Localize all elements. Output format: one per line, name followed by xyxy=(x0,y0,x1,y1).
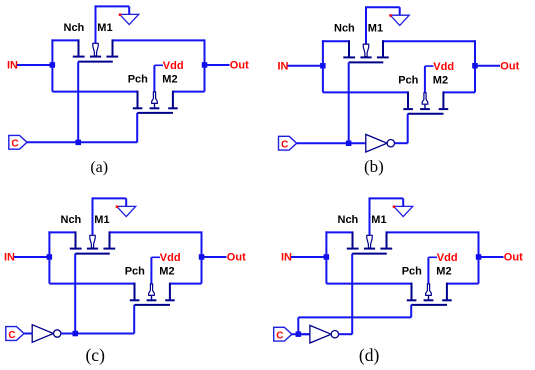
wire M2 drain to Out node (b) xyxy=(443,91,475,93)
node C junction (b) xyxy=(346,141,352,147)
svg-text:Out: Out xyxy=(504,252,523,264)
svg-text:(d): (d) xyxy=(359,345,380,365)
svg-text:Vdd: Vdd xyxy=(160,252,181,264)
wire M2 drain to Out node (c) xyxy=(170,283,202,285)
node Out junction (b) xyxy=(472,63,478,69)
transistor M2 PMOS (d) xyxy=(407,283,452,305)
wire M1 source to Out node (a) xyxy=(113,39,205,91)
wire C junction to inverter (d) xyxy=(298,333,310,335)
svg-text:Nch: Nch xyxy=(334,23,355,35)
wire C pin to inverter (c) xyxy=(24,333,32,335)
wire IN down to M2 source (a) xyxy=(52,65,137,92)
input pin C (d) xyxy=(274,327,292,341)
wire M2 drain to Out node (d) xyxy=(447,283,479,285)
wire Cbar to M2 gate (c) xyxy=(133,305,135,334)
svg-text:(b): (b) xyxy=(364,157,384,176)
svg-text:IN: IN xyxy=(4,252,15,264)
input pin C (c) xyxy=(6,327,24,341)
wire M1 source to Out node (c) xyxy=(110,231,202,283)
svg-text:M2: M2 xyxy=(162,74,177,86)
svg-text:M1: M1 xyxy=(97,22,112,34)
wire IN down to M2 source (d) xyxy=(326,257,411,284)
node Out junction (d) xyxy=(476,254,482,260)
wire IN down to M2 source (c) xyxy=(49,257,134,284)
svg-text:Vdd: Vdd xyxy=(163,60,184,72)
wire Cbar to M1 gate (c) xyxy=(74,254,76,334)
svg-text:Vdd: Vdd xyxy=(433,61,454,73)
wire IN lead (d) xyxy=(291,256,326,258)
svg-text:Nch: Nch xyxy=(64,22,85,34)
node IN junction (d) xyxy=(324,254,330,260)
wire C to M2 gate (a) xyxy=(136,113,138,142)
inverter Uc (NOT gate) xyxy=(32,325,61,343)
transistor M1 NMOS (d) xyxy=(347,231,392,253)
svg-text:Pch: Pch xyxy=(125,266,145,278)
node Cbar junction (c) xyxy=(73,331,79,337)
svg-text:(a): (a) xyxy=(90,159,108,176)
node C junction (d) xyxy=(296,331,302,337)
transistor M2 PMOS (a) xyxy=(133,91,178,113)
wire Out lead (a) xyxy=(205,64,230,66)
svg-text:M2: M2 xyxy=(436,266,451,278)
wire inverter out to M1 gate riser (d) xyxy=(339,254,353,335)
wire M1 bulk to ground (d) xyxy=(369,198,404,235)
wire Vdd to M2 bulk (d) xyxy=(428,257,437,284)
input pin C (a) xyxy=(9,135,27,149)
inverter Ub (NOT gate) xyxy=(366,134,395,152)
svg-text:C: C xyxy=(276,331,283,342)
wire inverter out along C line (c) xyxy=(61,333,134,335)
ground symbol VSS (c) xyxy=(116,198,136,216)
svg-text:Out: Out xyxy=(500,60,519,72)
svg-text:Out: Out xyxy=(227,252,246,264)
node IN junction (b) xyxy=(320,63,326,69)
wire C to M1 gate (b) xyxy=(348,62,350,143)
wire IN up to M1 drain (a) xyxy=(51,39,78,65)
wire IN up to M1 drain (b) xyxy=(322,40,349,66)
ground symbol VSS (b) xyxy=(389,7,409,25)
transistor M1 NMOS (c) xyxy=(70,231,115,253)
node Out junction (c) xyxy=(199,254,205,260)
input pin C (b) xyxy=(279,136,297,150)
wire C to M1 gate (a) xyxy=(77,62,79,143)
svg-text:M2: M2 xyxy=(159,266,174,278)
transistor M1 NMOS (a) xyxy=(73,39,118,61)
wire inverter out to M2 gate riser (b) xyxy=(395,114,408,144)
wire M1 bulk to ground (b) xyxy=(365,7,400,44)
wire Out lead (b) xyxy=(475,65,500,67)
svg-text:C: C xyxy=(11,139,18,150)
svg-text:Pch: Pch xyxy=(128,74,148,86)
wire M2 drain to Out node (a) xyxy=(173,91,205,93)
wire Out lead (d) xyxy=(479,256,504,258)
svg-text:Nch: Nch xyxy=(61,214,82,226)
node IN junction (c) xyxy=(47,254,53,260)
node C junction (a) xyxy=(76,140,82,146)
wire IN down to M2 source (b) xyxy=(323,66,408,93)
wire C line (a) xyxy=(27,141,137,143)
ground symbol VSS (a) xyxy=(119,6,139,24)
node Out junction (a) xyxy=(202,62,208,67)
wire IN lead (b) xyxy=(288,65,323,67)
wire IN up to M1 drain (d) xyxy=(325,231,352,257)
transistor M1 NMOS (b) xyxy=(343,40,388,62)
svg-text:M1: M1 xyxy=(94,214,109,226)
svg-text:Out: Out xyxy=(230,60,249,72)
node IN junction (a) xyxy=(50,62,56,67)
svg-text:Vdd: Vdd xyxy=(437,252,458,264)
wire Vdd to M2 bulk (c) xyxy=(151,257,160,284)
svg-text:IN: IN xyxy=(7,60,18,72)
wire Vdd to M2 bulk (b) xyxy=(425,66,434,93)
wire M1 bulk to ground (a) xyxy=(95,6,130,43)
wire C line to inverter (b) xyxy=(297,142,366,144)
svg-text:C: C xyxy=(8,330,15,341)
svg-text:Pch: Pch xyxy=(398,74,418,86)
transistor M2 PMOS (b) xyxy=(403,91,448,113)
svg-text:IN: IN xyxy=(281,252,292,264)
svg-text:M2: M2 xyxy=(433,74,448,86)
wire Out lead (c) xyxy=(202,256,227,258)
svg-text:Pch: Pch xyxy=(402,266,422,278)
svg-text:M1: M1 xyxy=(371,214,386,226)
wire C branch to M2 gate (d) xyxy=(298,305,411,334)
wire IN lead (c) xyxy=(14,256,49,258)
wire M1 source to Out node (d) xyxy=(387,231,479,283)
svg-text:IN: IN xyxy=(278,60,289,72)
svg-text:M1: M1 xyxy=(368,23,383,35)
wire M1 source to Out node (b) xyxy=(383,40,475,92)
wire IN up to M1 drain (c) xyxy=(48,231,75,257)
transistor M2 PMOS (c) xyxy=(130,283,175,305)
svg-text:C: C xyxy=(281,140,288,151)
wire C pin to junction (d) xyxy=(292,333,310,335)
inverter Ud (NOT gate) xyxy=(310,325,339,343)
wire M1 bulk to ground (c) xyxy=(92,198,127,235)
svg-text:(c): (c) xyxy=(85,345,105,365)
ground symbol VSS (d) xyxy=(393,198,413,216)
svg-text:Nch: Nch xyxy=(338,214,359,226)
wire Vdd to M2 bulk (a) xyxy=(154,65,163,92)
wire IN lead (a) xyxy=(17,64,52,66)
